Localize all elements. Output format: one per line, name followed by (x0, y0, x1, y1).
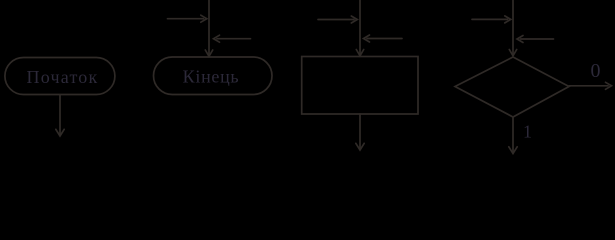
branch down from decision (1) (512, 117, 514, 153)
arrow right (to decision line) (472, 18, 508, 20)
arrowhead down (into Кінець) (205, 50, 212, 56)
flow line into Кінець (208, 0, 210, 55)
svg-text:0: 0 (591, 60, 601, 82)
process block (302, 57, 418, 115)
flow line into decision (512, 0, 514, 54)
arrowhead down (into process) (356, 50, 363, 56)
arrowhead down (Початок exit) (56, 129, 64, 136)
flow line below Початок (59, 95, 61, 135)
arrow right (to process line) (318, 19, 354, 21)
flow line below process (359, 114, 361, 149)
arrowhead right (201, 15, 207, 22)
arrow left (to decision line) (521, 38, 554, 40)
branch right from decision (0) (569, 85, 608, 87)
arrow right (to Кінець line) (168, 18, 204, 20)
arrowhead down (process exit) (356, 143, 364, 150)
arrow left (to process line) (367, 38, 402, 40)
decision diamond (455, 57, 569, 117)
svg-text:Кінець: Кінець (183, 67, 240, 87)
arrowhead down (into decision) (509, 50, 516, 56)
arrowhead left (214, 35, 220, 42)
terminator "Кінець" (154, 57, 273, 95)
arrow left (to Кінець line) (217, 38, 251, 40)
arrowhead right (0 branch) (606, 82, 612, 89)
arrowhead right (351, 16, 357, 23)
svg-text:1: 1 (523, 122, 532, 142)
svg-text:Початок: Початок (27, 67, 99, 87)
arrowhead down (1 branch) (509, 147, 517, 154)
arrowhead left (517, 36, 523, 43)
arrowhead right (505, 16, 511, 23)
arrowhead left (364, 35, 370, 42)
terminator "Початок" (5, 58, 115, 95)
flow line into process (359, 0, 361, 54)
